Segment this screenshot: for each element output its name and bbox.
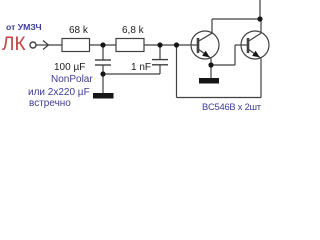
svg-text:от УМЗЧ: от УМЗЧ [6,22,42,32]
svg-text:встречно: встречно [29,98,71,109]
svg-text:NonPolar: NonPolar [51,74,93,85]
svg-text:BC546B х 2шт: BC546B х 2шт [202,101,262,112]
svg-text:1 nF: 1 nF [131,62,151,73]
svg-text:или 2х220 µF: или 2х220 µF [28,87,90,98]
svg-text:ЛК: ЛК [2,34,26,55]
svg-text:6,8 k: 6,8 k [122,25,145,36]
svg-text:68 k: 68 k [69,25,89,36]
svg-text:100 µF: 100 µF [54,62,85,73]
